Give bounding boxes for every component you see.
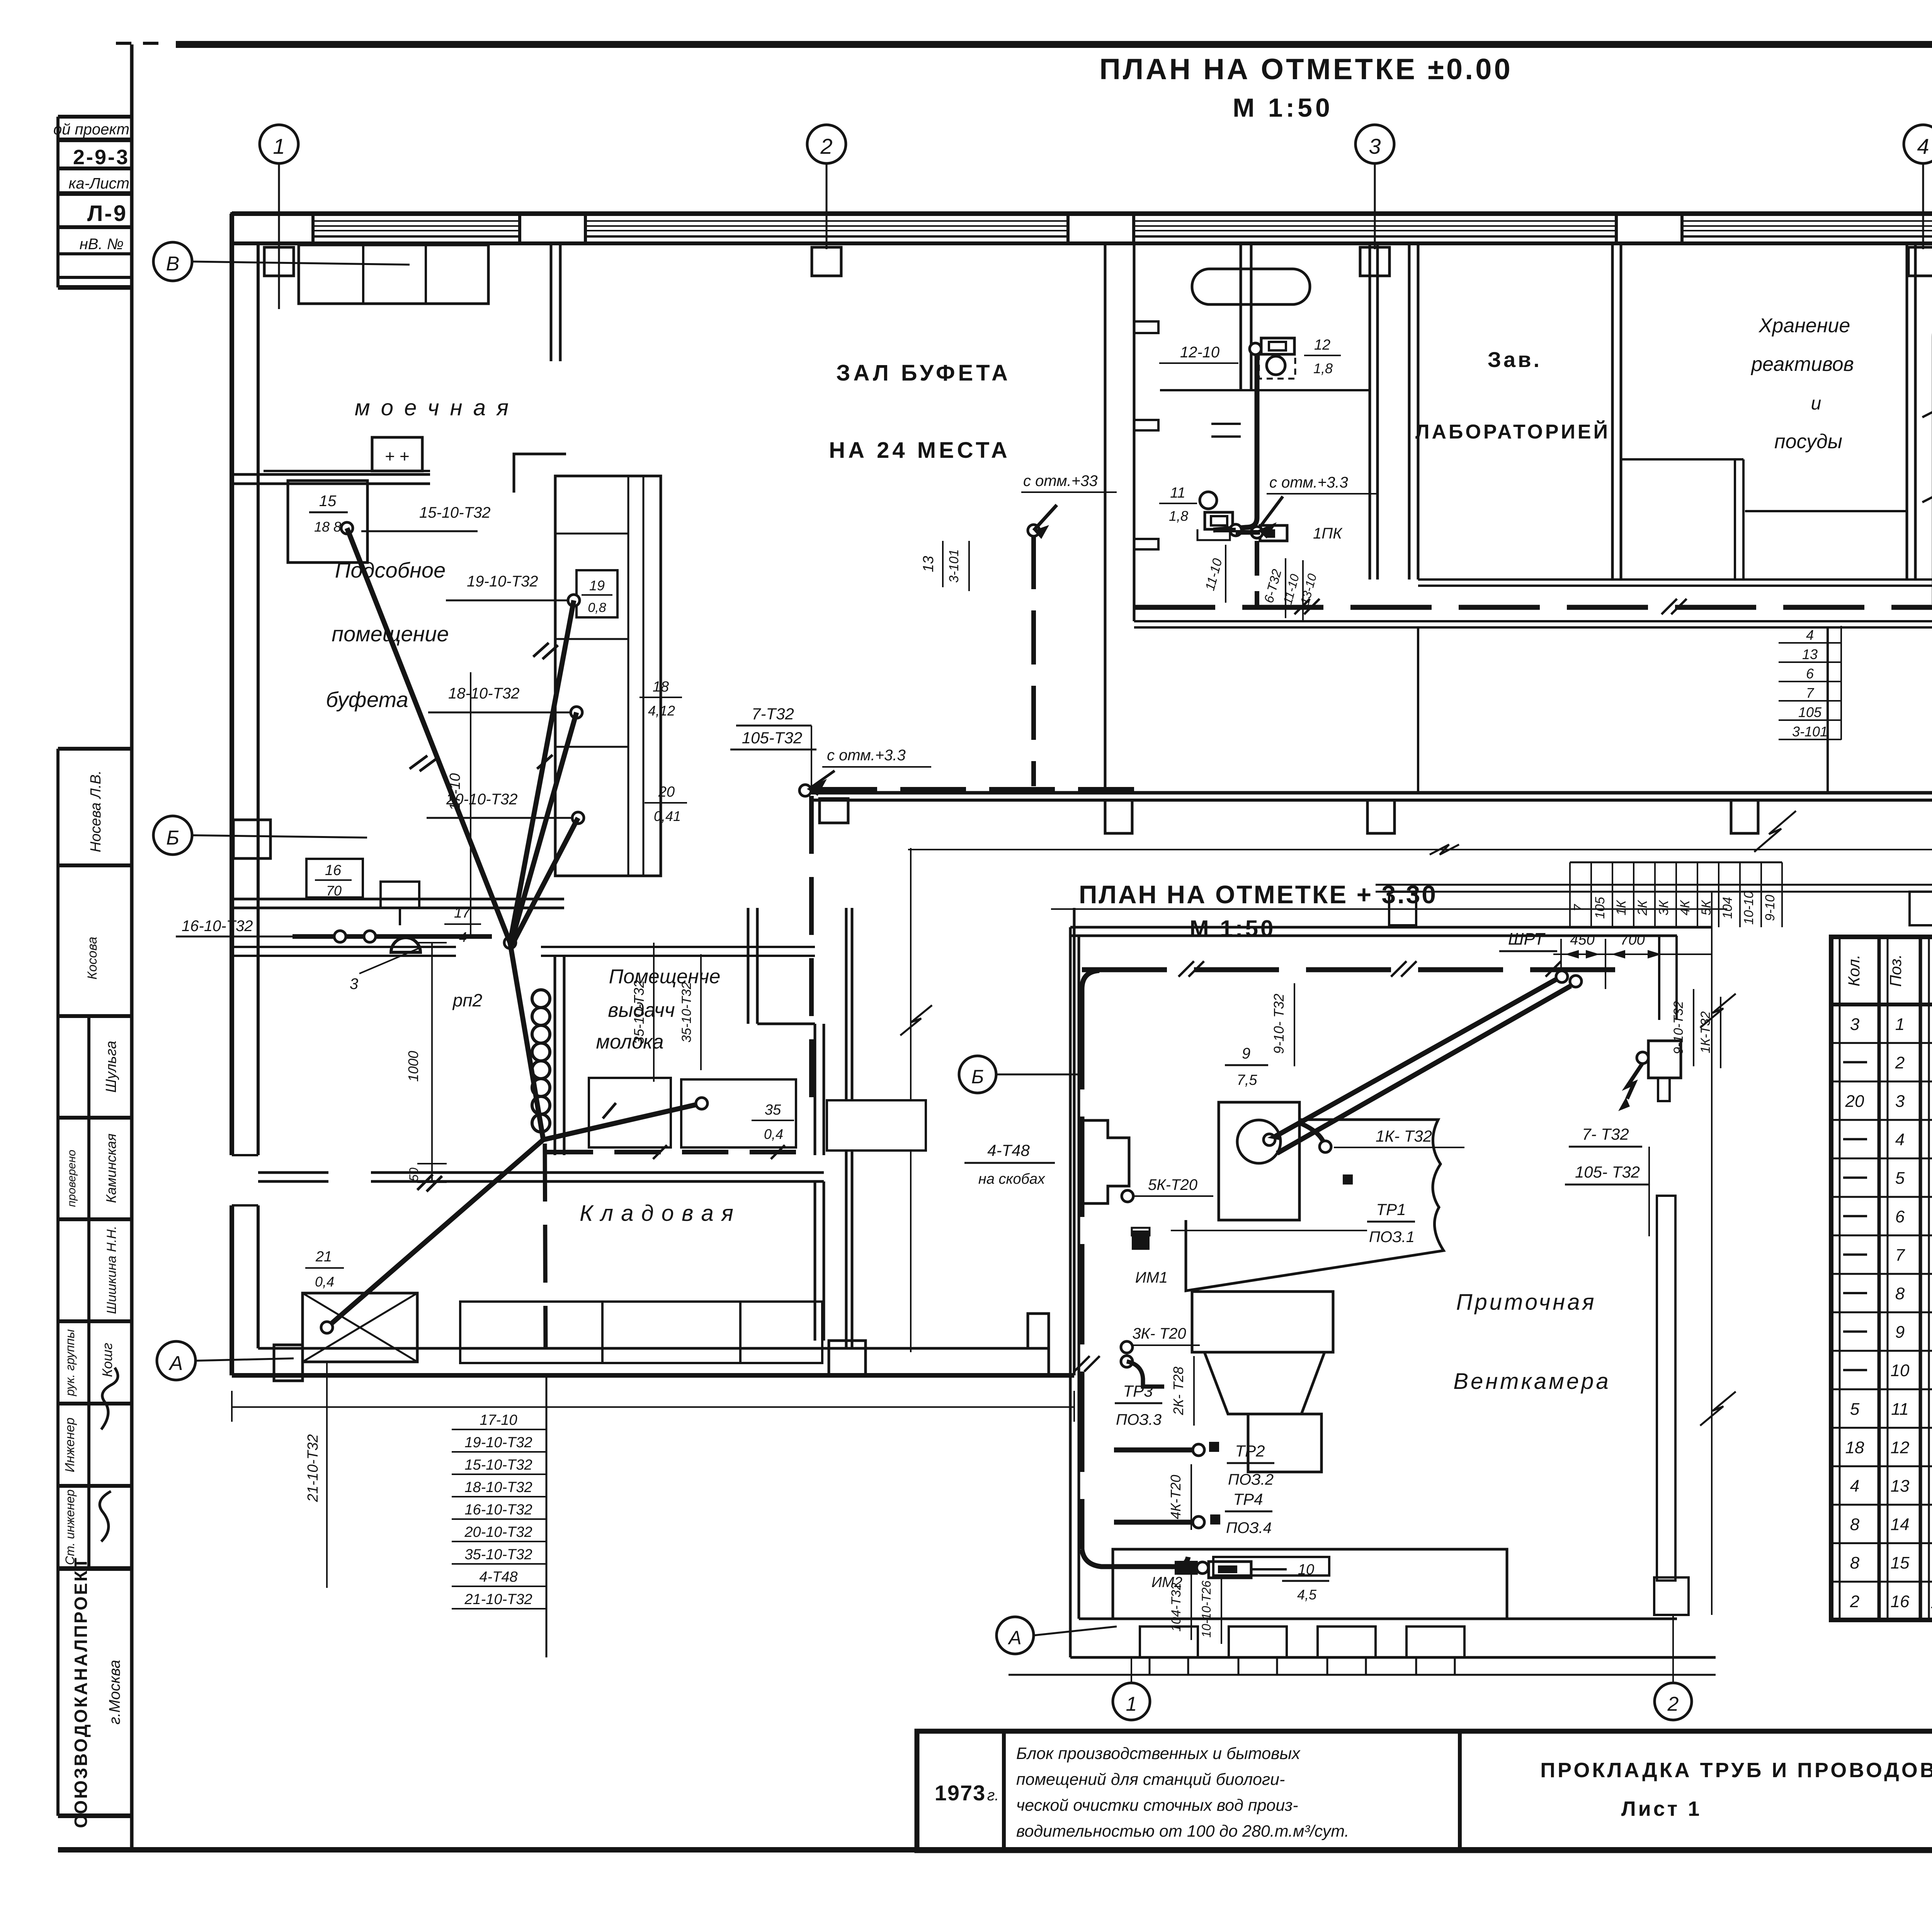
label 10/4,5 [1282,1562,1329,1603]
plan2 ground line [1009,1674,1716,1676]
grid column circle 2 [807,125,846,249]
svg-text:2К- Т28: 2К- Т28 [1170,1366,1186,1415]
svg-text:19: 19 [589,578,605,593]
plan2 left wall [1070,927,1079,1657]
svg-text:4-Т48: 4-Т48 [479,1569,517,1585]
svg-text:4: 4 [459,929,467,945]
box 19/0,8 [577,570,617,617]
title block subject [1540,1759,1932,1820]
svg-text:2: 2 [1850,1592,1859,1611]
node 18 [571,707,582,718]
svg-text:3К- Т20: 3К- Т20 [1132,1325,1186,1342]
node 13 corner [1028,525,1039,536]
title block frame [917,1731,1932,1851]
svg-text:Косова: Косова [85,937,100,980]
plan2 bottom piers [1140,1626,1464,1675]
cable 12 down to corridor [1255,541,1259,606]
svg-text:105: 105 [1593,897,1607,919]
svg-text:1,8: 1,8 [1169,508,1188,524]
svg-text:молока: молока [596,1031,663,1053]
svg-text:15-10-Т32: 15-10-Т32 [464,1457,532,1473]
svg-text:ТР4: ТР4 [1233,1490,1263,1508]
svg-text:104-Т32: 104-Т32 [1169,1583,1184,1632]
svg-text:реактивов: реактивов [1750,353,1854,376]
svg-text:ПРОКЛАДКА ТРУБ И ПРОВ: ПРОКЛАДКА ТРУБ И ПРОВОДОВ НА 3х ЛИСТАХ [1540,1759,1932,1782]
svg-text:ПОЗ.2: ПОЗ.2 [1228,1471,1274,1488]
svg-text:проверено: проверено [65,1150,78,1207]
plan1 top window band inner line [232,241,1932,245]
svg-text:ТР1: ТР1 [1376,1200,1406,1219]
label 15-10-Т32 [361,504,491,531]
pier L near hall [514,454,566,493]
svg-text:1К: 1К [1614,900,1629,916]
symbol at ИМ2 [1209,1562,1287,1578]
partition toilet block left wall [1105,243,1134,793]
ИМ2 [1151,1561,1208,1591]
partition буфет left [551,243,560,361]
cable hub to node20 [512,818,578,945]
svg-text:ПОЗ.4: ПОЗ.4 [1226,1519,1272,1536]
shelf wall under 16 area [232,947,815,956]
label 21-10-Т32 rotated [305,1362,327,1588]
cable hub to node18 [511,712,577,944]
title: plan at +3.30 [1079,880,1437,942]
cable vertical 12 run [1213,346,1257,530]
svg-text:нВ. №: нВ. № [80,236,124,253]
svg-text:5К-Т20: 5К-Т20 [1148,1176,1197,1193]
label с отм.+33 left [1258,474,1378,539]
axis circle А [157,1341,294,1380]
svg-text:м о е ч н а я: м о е ч н а я [355,395,511,420]
svg-text:НА 24 МЕСТА: НА 24 МЕСТА [829,438,1010,463]
svg-text:105- Т32: 105- Т32 [1575,1163,1640,1181]
grid column circle 4 [1904,125,1932,249]
svg-text:с отм.+33: с отм.+33 [1023,472,1098,489]
title block year [935,1781,999,1805]
svg-text:105-Т32: 105-Т32 [742,729,802,747]
svg-text:12-10: 12-10 [1180,344,1219,361]
label кладовая [580,1201,734,1226]
node 12 [1250,343,1261,355]
node 19 [568,595,580,606]
svg-text:0,41: 0,41 [654,808,681,824]
page left border [130,44,134,1850]
svg-text:Блок производственных и быт: Блок производственных и бытовых [1016,1744,1301,1763]
cable hub down to 21 box [327,943,543,1327]
svg-text:9-10-Т32: 9-10-Т32 [1671,1001,1686,1054]
svg-text:70: 70 [326,883,342,899]
plan2 duct column [1654,1196,1689,1615]
sidebar stamp group D (org name) [58,1556,132,1828]
plan1 lower wing piers [1389,892,1932,925]
hub junction [504,937,516,948]
slash marks on diagonals [410,643,616,1191]
svg-text:Зав.: Зав. [1488,347,1542,372]
svg-text:Венткамера: Венткамера [1453,1369,1611,1394]
title: plan at 0.00 [1099,53,1513,122]
svg-text:ТР2: ТР2 [1235,1442,1265,1460]
svg-text:+ +: + + [385,447,410,466]
svg-text:10-10-Т26: 10-10-Т26 [1199,1581,1213,1638]
dashed wire hub down [545,1144,546,1348]
plan1 top window band outer line [232,211,1932,216]
plan2 top wall [1070,927,1712,936]
label 21/0,4 [305,1249,344,1290]
svg-text:1: 1 [273,134,285,158]
svg-text:ПОЗ.1: ПОЗ.1 [1369,1229,1415,1246]
svg-text:35-10-Т32: 35-10-Т32 [464,1547,532,1563]
svg-text:3: 3 [1895,1092,1905,1111]
svg-text:4,5: 4,5 [1297,1587,1317,1603]
svg-text:7,5: 7,5 [1237,1072,1258,1088]
svg-text:ой проект: ой проект [53,121,129,138]
svg-text:водительностью от 100 до 280: водительностью от 100 до 280.т.м³/сут. [1016,1822,1349,1841]
dim 1000 vertical [405,943,447,1182]
plan1 lower wing wall [1376,885,1932,892]
svg-text:104: 104 [1720,897,1735,919]
svg-text:5К: 5К [1699,900,1714,916]
svg-text:5: 5 [1850,1400,1860,1419]
svg-text:20: 20 [658,784,675,800]
cable elbow 11 [1213,530,1260,532]
cable 13 vertical dashed [1031,535,1036,786]
plan1 column squares on top wall [264,247,1932,276]
milk room label [596,965,720,1053]
crossed box 21 [303,1293,417,1362]
node 15 [341,522,353,534]
partition lab left wall [1409,243,1418,580]
svg-text:21: 21 [315,1249,332,1265]
label моечная [355,395,511,420]
box 4-Т48 area [827,1100,926,1151]
svg-text:20-10-Т32: 20-10-Т32 [464,1524,532,1540]
svg-text:4: 4 [1895,1130,1905,1149]
partition toilet right wall [1370,243,1378,580]
plan2 bottom grid circle 2 [1655,1615,1692,1720]
corridor cable slash marks [1294,599,1932,614]
label зал буфета [829,360,1011,463]
svg-text:9: 9 [1242,1045,1250,1062]
svg-text:посуды: посуды [1774,430,1842,453]
svg-text:ПОЗ.3: ПОЗ.3 [1116,1411,1162,1428]
кладовая top wall [258,1173,824,1181]
TV table symbol [381,882,419,925]
label с отм.+3.3 at corner [807,747,931,796]
svg-text:Л-9: Л-9 [87,201,128,226]
svg-text:ИМ1: ИМ1 [1135,1269,1168,1286]
svg-text:выдачч: выдачч [608,999,675,1021]
plan2 axis А circle [997,1617,1117,1654]
svg-text:Хранение: Хранение [1759,314,1850,337]
junction box 15 with label 15/18 8 [288,481,367,563]
svg-text:13: 13 [1891,1477,1910,1496]
svg-text:1: 1 [1895,1015,1905,1034]
svg-text:16: 16 [325,862,342,879]
bell symbol [391,938,420,952]
plan2 bottom room [1113,1549,1507,1619]
plan2 junction box on right wall [1618,1041,1681,1111]
plan2 cable corner [1082,970,1099,989]
label 7-Т32/105-Т32 [730,705,816,788]
svg-text:3: 3 [350,976,358,993]
svg-text:105: 105 [1798,704,1822,720]
svg-text:ШРТ: ШРТ [1508,930,1546,948]
svg-text:Б: Б [166,827,179,849]
cable hub to node15 [347,528,510,943]
table rows content [1843,1015,1932,1612]
storage closet walls [1621,459,1907,580]
plan1 window piers [232,214,1932,243]
svg-text:8: 8 [1850,1515,1860,1534]
svg-text:ЛАБОРАТОРИЕЙ: ЛАБОРАТОРИЕЙ [1415,420,1610,443]
materials table grid [1831,937,1932,1620]
svg-text:16-10-Т32: 16-10-Т32 [464,1502,532,1518]
svg-text:Инженер: Инженер [63,1417,77,1472]
plan2 AHU big box with torn edge [1186,1120,1444,1291]
svg-text:50: 50 [407,1168,421,1181]
washroom bottom wall and shelf [232,471,430,484]
lower strip partitions [1418,627,1932,793]
cable ТР2 [1114,1442,1219,1456]
svg-text:4: 4 [1917,134,1929,158]
svg-text:10-10: 10-10 [1742,891,1756,925]
svg-text:700: 700 [1620,932,1645,948]
ИМ1 [1132,1228,1168,1286]
label ТР1/ПОЗ.1 [1171,1174,1415,1246]
svg-text:1973: 1973 [935,1781,986,1805]
label 17/4 [444,905,481,945]
fixture 12 symbols [1259,338,1295,379]
svg-text:13: 13 [1802,646,1818,662]
svg-text:г.: г. [987,1787,999,1804]
wall under подсобное [232,899,564,908]
table headers [1845,948,1932,993]
svg-text:15: 15 [319,493,337,510]
plan1 corridor walls (right block) [1134,580,1932,627]
label 2К-Т28 rotated [1170,1356,1194,1426]
svg-text:Шульга: Шульга [103,1041,119,1093]
grid column circle 1 [260,125,298,309]
svg-text:4,12: 4,12 [648,703,675,719]
svg-text:0,8: 0,8 [588,600,606,615]
plan1 window glazing lines [313,221,1932,236]
labels 9-10-Т32 1К-Т32 rotated [1671,989,1721,1068]
svg-text:16-10-Т32: 16-10-Т32 [182,918,253,935]
cable list under plan1 [452,1375,546,1657]
milk room walls lower (door jambs) [232,1155,258,1205]
plan1 bottom wall piers [1105,800,1932,833]
svg-text:ка-Лист: ка-Лист [69,175,129,192]
milk room counters [589,1078,796,1147]
plan portion boundary line [900,848,932,1352]
svg-text:Б: Б [971,1066,984,1088]
cable dashed along milk room bottom [547,1145,796,1159]
ШРТ label and dims [1499,930,1712,989]
rotated labels 6-Т32 11-10 13-10 [1262,558,1320,620]
node 21 [321,1322,333,1333]
кладовая right wall [815,1181,824,1341]
svg-text:0,4: 0,4 [315,1274,334,1290]
cable bottom elbow to ИМ2 [1082,1549,1188,1567]
svg-text:16: 16 [1891,1592,1910,1611]
axis Б line across [908,845,1932,855]
svg-text:1,8: 1,8 [1313,360,1333,376]
rotated stack labels above plan2 [1570,811,1796,927]
corridor cable main [1134,586,1932,614]
plan2 bottom wall [1070,1619,1716,1657]
svg-text:3К: 3К [1656,900,1671,916]
label 35/0,4 [752,1102,794,1142]
label подсобное помещение буфета [326,558,449,712]
cable hub to 35 node [543,1103,702,1140]
svg-text:12: 12 [1314,337,1330,353]
label 7-Т32/105-Т32 plan2 [1565,1125,1649,1236]
stack 4 13 6 7 105 3-101 [1779,626,1841,740]
svg-text:СОЮЗВОДОКАНАЛПРОЕКТ: СОЮЗВОДОКАНАЛПРОЕКТ [71,1556,91,1828]
svg-text:Ст. инженер: Ст. инженер [63,1489,77,1565]
plan2 1К elbow [1267,1122,1331,1152]
svg-text:0,4: 0,4 [764,1126,783,1142]
bathtub [1192,269,1310,304]
label 3 with leader [350,947,421,993]
svg-text:и: и [1811,393,1821,414]
label 18-10-Т32 [428,685,570,712]
plus-plus stand [372,437,422,471]
svg-text:15: 15 [1891,1553,1910,1572]
label 18/4,12 [639,679,682,719]
sidebar stamp group C (names and roles) [58,1016,132,1569]
label 3К-Т20 [1121,1325,1200,1387]
cabinets bottom [460,1302,822,1363]
label 4К-Т20 rotated [1168,1464,1191,1530]
svg-text:18: 18 [1845,1438,1864,1457]
left wall stubs [1134,321,1158,549]
svg-text:11: 11 [1170,485,1185,501]
svg-text:9-10- Т32: 9-10- Т32 [1271,994,1287,1054]
plan2 duct boxes [1192,1292,1333,1472]
svg-text:12: 12 [1891,1438,1910,1457]
nodes on 16 line [334,931,376,942]
plan1 bottom wall piers left block [829,1314,1049,1375]
svg-text:7: 7 [1806,685,1815,701]
title block description [1016,1744,1349,1841]
label Зав. лабораторией [1415,347,1610,443]
svg-text:1000: 1000 [405,1051,421,1082]
svg-text:8: 8 [1895,1284,1905,1303]
node 20 [572,812,584,824]
svg-text:13: 13 [920,556,937,572]
svg-text:4: 4 [1806,627,1814,643]
svg-text:20: 20 [1845,1092,1864,1111]
label 9/7,5 [1225,1045,1268,1088]
label 20/0,41 [645,784,687,824]
svg-text:7: 7 [1571,904,1586,911]
page bottom border [58,1847,1932,1853]
svg-text:Шишкина Н.Н.: Шишкина Н.Н. [104,1226,119,1314]
node corner 7 [799,785,811,796]
svg-text:ЗАЛ БУФЕТА: ЗАЛ БУФЕТА [836,360,1011,386]
svg-text:19-10-Т32: 19-10-Т32 [467,573,538,590]
svg-text:7- Т32: 7- Т32 [1582,1125,1629,1143]
svg-text:2: 2 [1667,1693,1679,1715]
plan1 left outer wall [232,214,258,1375]
svg-text:15-10-Т32: 15-10-Т32 [419,504,491,521]
svg-text:Кол.: Кол. [1845,955,1863,987]
plan2 labels Приточная Венткамера [1453,1290,1611,1394]
svg-text:3: 3 [1369,134,1381,158]
label 35-10-Т32 near milk room rotated [679,954,701,1070]
svg-text:1К- Т32: 1К- Т32 [1376,1127,1432,1145]
svg-text:2: 2 [1895,1053,1905,1072]
подсобное room inner walls [555,908,824,1155]
svg-text:Носева Л.В.: Носева Л.В. [88,770,104,852]
plan1 dimension line under left block [232,1391,1074,1422]
svg-text:1К-Т32: 1К-Т32 [1698,1011,1713,1053]
svg-text:рук. группы: рук. группы [63,1329,77,1397]
svg-text:А: А [1007,1627,1021,1649]
labels 104-Т32 10-10-Т26 rotated [1169,1574,1221,1644]
label 20-10-Т32 [427,791,571,818]
svg-text:10: 10 [1891,1361,1910,1380]
washroom counter [299,245,488,304]
svg-text:2К: 2К [1635,900,1650,916]
plan2 bottom grid circle 1 [1113,1657,1150,1720]
buffet counter column [555,476,661,876]
svg-text:9-10: 9-10 [1763,895,1777,921]
label 5К-Т20 [1122,1176,1213,1202]
svg-text:21-10-Т32: 21-10-Т32 [464,1591,532,1608]
ШРТ cabinet wall [1659,936,1677,1020]
svg-text:2-9-3: 2-9-3 [73,146,129,169]
cable ТР4 [1114,1514,1220,1528]
label ТР3/ПОЗ.3 [1115,1382,1162,1428]
svg-text:4К: 4К [1678,900,1692,916]
svg-text:Каминская: Каминская [103,1134,119,1203]
svg-text:буфета: буфета [326,687,408,712]
rp2 coil [452,990,550,1132]
svg-text:ПЛАН НА ОТМЕТКЕ ±0.00: ПЛАН НА ОТМЕТКЕ ±0.00 [1099,53,1513,86]
svg-text:18 8: 18 8 [314,519,341,535]
svg-text:6: 6 [1806,666,1814,682]
plan2 fan unit [1219,1102,1299,1220]
label 16-10-Т32 and cable [176,918,492,936]
svg-text:8: 8 [1850,1553,1860,1572]
svg-text:17-10: 17-10 [480,1412,517,1428]
svg-text:11-10: 11-10 [1202,557,1225,592]
grid column circle 3 [1355,125,1394,249]
svg-text:7-Т32: 7-Т32 [752,705,794,723]
svg-text:К л а д о в а я: К л а д о в а я [580,1201,734,1226]
node 35 [696,1098,707,1109]
svg-text:9: 9 [1895,1323,1905,1342]
svg-text:на скобах: на скобах [978,1171,1046,1187]
plan2 axis Б circle [959,1056,1078,1093]
svg-text:3: 3 [1850,1015,1860,1034]
svg-text:Подсобное: Подсобное [335,558,446,582]
plan2 cable top run [1082,961,1615,977]
svg-text:Лист 1: Лист 1 [1621,1797,1702,1820]
fixture 11 symbols [1197,492,1233,540]
cable corner to corridor [811,789,1134,1100]
svg-text:1: 1 [1126,1693,1137,1715]
svg-text:помещений для станций биоло: помещений для станций биологи- [1016,1770,1285,1789]
label 17-10 rotated [447,672,471,937]
label 19-10-Т32 [446,573,568,600]
label 12-10 [1159,344,1238,363]
plan2 left wall niche [1079,1120,1129,1203]
label с отм.+3.3 at 13 [1021,472,1117,539]
label ТР2/ПОЗ.2 [1227,1442,1274,1488]
